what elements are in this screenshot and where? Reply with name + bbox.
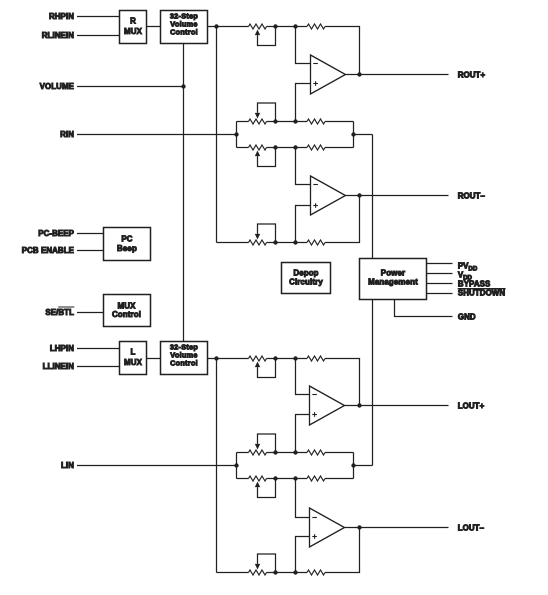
wire op-amp U1 noninverting input from RIN network xyxy=(296,84,311,122)
wire left bridge vertical (R) xyxy=(216,27,218,243)
wire op-amp U2 noninverting input to feedback row xyxy=(296,206,311,243)
block Power Management xyxy=(360,259,427,300)
resistor LIN top branch fixed xyxy=(307,450,325,455)
svg-text:L: L xyxy=(131,348,136,357)
wire power rail upper vertical xyxy=(372,135,374,259)
wire feedback row L mid xyxy=(267,572,308,574)
wire power rail lower vertical xyxy=(372,300,374,466)
wire feedback row R lead xyxy=(217,242,249,244)
wire op-amp U4 output to LOUT- xyxy=(345,527,449,529)
junction RIN top wiper tap xyxy=(273,119,277,123)
variable resistor LIN bottom branch xyxy=(249,476,267,481)
wire LIN bottom branch mid xyxy=(267,478,308,480)
wire VOLUME input xyxy=(77,86,184,88)
wire SHUTDOWN pin xyxy=(427,293,453,295)
wire LHPIN to L MUX xyxy=(77,348,120,350)
junction LIN top op-amp feed node xyxy=(293,450,297,454)
junction row1-R left node xyxy=(214,24,218,28)
wire op-amp U3 output to LOUT+ xyxy=(345,405,449,407)
svg-text:SHUTDOWN: SHUTDOWN xyxy=(458,288,505,297)
junction feedback row L wiper tap xyxy=(273,570,277,574)
junction row1-R wiper tap xyxy=(273,24,277,28)
block Depop Circuitry xyxy=(282,263,331,294)
wire PCB ENABLE input xyxy=(77,250,104,252)
wire LIN input xyxy=(77,465,237,467)
svg-text:ROUT+: ROUT+ xyxy=(458,71,486,80)
svg-text:Beep: Beep xyxy=(117,244,137,253)
block PC Beep xyxy=(104,228,151,261)
resistor RIN top branch fixed xyxy=(307,119,325,124)
wiper arrow RIN top branch xyxy=(255,113,260,119)
junction LIN node xyxy=(234,463,238,467)
wire RIN top branch lead xyxy=(237,121,249,123)
svg-text:PCB ENABLE: PCB ENABLE xyxy=(22,246,74,255)
junction LIN top wiper tap xyxy=(273,450,277,454)
wire RIN input xyxy=(77,134,237,136)
svg-text:Depop: Depop xyxy=(293,269,318,278)
junction LIN network right node xyxy=(351,463,355,467)
wire RIN top branch to right vertical xyxy=(325,121,354,123)
wire feedback row R mid xyxy=(267,242,308,244)
wiper arrow LIN top branch xyxy=(255,444,260,450)
svg-text:RIN: RIN xyxy=(60,130,74,139)
wire GND pin xyxy=(395,300,453,317)
junction row1-L left node xyxy=(214,356,218,360)
block 32-Step Volume Control (R) xyxy=(161,11,208,44)
wire PC-BEEP input xyxy=(77,233,104,235)
wire op-amp U3 noninverting input from LIN network xyxy=(296,415,310,453)
block R MUX xyxy=(120,11,147,44)
resistor LIN bottom branch fixed xyxy=(307,476,325,481)
junction RIN network right node xyxy=(351,132,355,136)
svg-text:ROUT–: ROUT– xyxy=(458,192,486,201)
svg-text:RLINEIN: RLINEIN xyxy=(42,31,74,40)
junction RIN node xyxy=(234,132,238,136)
variable resistor RIN top branch xyxy=(249,119,267,124)
junction feedback row L node xyxy=(293,570,297,574)
svg-text:Circuitry: Circuitry xyxy=(289,278,323,287)
wire RIN bottom branch lead xyxy=(237,147,249,149)
block 32-Step Volume Control (L) xyxy=(161,342,208,375)
junction op-amp U2 output node xyxy=(357,193,361,197)
wire LIN top branch mid xyxy=(267,452,308,454)
svg-text:VOLUME: VOLUME xyxy=(40,82,74,91)
junction RIN bottom wiper tap xyxy=(273,145,277,149)
wire SE/BTL input xyxy=(77,312,104,314)
wire LIN network left vertical xyxy=(236,453,238,479)
wire LIN bottom branch lead xyxy=(237,478,249,480)
junction row1-R inverting-feed node xyxy=(293,24,297,28)
wire op-amp U4 noninverting input to feedback row xyxy=(296,537,310,573)
wire row1-R node to op-amp U1 inverting input xyxy=(296,27,311,64)
wire LLINEIN to L MUX xyxy=(77,366,120,368)
variable resistor feedback row R xyxy=(249,240,267,245)
wire row1-L to op-amp U3 output xyxy=(325,359,360,406)
wire RIN right node to power rail xyxy=(354,134,373,136)
variable resistor row1-L xyxy=(249,356,267,361)
wire volume control output (R) xyxy=(208,26,249,28)
op-amp U2 (ROUT-) xyxy=(311,176,346,215)
svg-text:BYPASS: BYPASS xyxy=(458,279,490,288)
wire row1-R mid xyxy=(267,26,308,28)
wire volume control output (L) xyxy=(208,358,249,360)
op-amp U3 (LOUT+) xyxy=(310,386,345,425)
wiper arrow feedback row R xyxy=(255,234,260,240)
wire BYPASS pin xyxy=(427,283,453,285)
wire feedback row R to op-amp U2 output xyxy=(325,196,360,243)
wire LIN top branch lead xyxy=(237,452,249,454)
wire feedback row L to op-amp U4 output xyxy=(325,528,360,573)
wire left bridge vertical (L) xyxy=(216,359,218,573)
op-amp U4 (LOUT-) xyxy=(310,508,345,547)
wire RIN bottom node to op-amp U2 inverting input xyxy=(296,148,311,185)
wire L MUX to volume control xyxy=(147,358,161,360)
svg-text:PC: PC xyxy=(121,235,132,244)
junction feedback row R node xyxy=(293,240,297,244)
wire row1-R to op-amp U1 output xyxy=(325,27,360,75)
op-amp U1 (ROUT+) xyxy=(311,55,346,94)
wire RIN network right vertical xyxy=(353,122,355,148)
wire RIN bottom branch mid xyxy=(267,147,308,149)
svg-text:LOUT+: LOUT+ xyxy=(458,402,485,411)
wire PVDD pin xyxy=(427,263,453,265)
wire RHPIN to R MUX xyxy=(77,16,120,18)
wire LIN network right vertical xyxy=(353,453,355,479)
svg-text:MUX: MUX xyxy=(124,27,143,36)
junction op-amp U4 output node xyxy=(357,525,361,529)
variable resistor row1-R xyxy=(249,24,267,29)
wire RLINEIN to R MUX xyxy=(77,35,120,37)
svg-text:LHPIN: LHPIN xyxy=(50,344,74,353)
junction LIN bottom op-amp feed node xyxy=(293,476,297,480)
wire LIN bottom branch to right vertical xyxy=(325,478,354,480)
wire LIN bottom node to op-amp U4 inverting input xyxy=(296,479,310,518)
svg-text:Control: Control xyxy=(112,310,141,319)
wire row1-L mid xyxy=(267,358,308,360)
svg-text:R: R xyxy=(130,17,136,26)
wire RIN top branch mid xyxy=(267,121,308,123)
wiper arrow row1-R xyxy=(255,30,260,36)
svg-text:LLINEIN: LLINEIN xyxy=(43,362,75,371)
junction op-amp U3 output node xyxy=(357,403,361,407)
wire LIN right node to power rail xyxy=(354,465,373,467)
wire R MUX to volume control xyxy=(147,26,161,28)
svg-text:MUX: MUX xyxy=(124,358,143,367)
svg-text:RHPIN: RHPIN xyxy=(49,12,74,21)
junction row1-L inverting-feed node xyxy=(293,356,297,360)
wire VDD pin xyxy=(427,273,453,275)
svg-text:GND: GND xyxy=(458,312,476,321)
wiper arrow feedback row L xyxy=(255,564,260,570)
variable resistor feedback row L xyxy=(249,570,267,575)
resistor RIN bottom branch fixed xyxy=(307,145,325,150)
wire LIN top branch to right vertical xyxy=(325,452,354,454)
wire RIN network left vertical xyxy=(236,122,238,148)
junction row1-L wiper tap xyxy=(273,356,277,360)
wire row1-L node to op-amp U3 inverting input xyxy=(296,359,310,395)
svg-text:Control: Control xyxy=(170,359,198,368)
variable resistor RIN bottom branch xyxy=(249,145,267,150)
junction op-amp U1 output node xyxy=(357,72,361,76)
wire RIN bottom branch to right vertical xyxy=(325,147,354,149)
wiper arrow LIN bottom branch xyxy=(255,482,260,488)
block MUX Control xyxy=(104,295,151,327)
svg-text:Control: Control xyxy=(170,28,198,37)
wire feedback row L lead xyxy=(217,572,249,574)
variable resistor LIN top branch xyxy=(249,450,267,455)
resistor row1-R feedback xyxy=(307,24,325,29)
svg-text:LOUT–: LOUT– xyxy=(458,524,485,533)
svg-text:PC-BEEP: PC-BEEP xyxy=(38,229,74,238)
junction VOLUME node xyxy=(181,84,185,88)
junction LIN bottom wiper tap xyxy=(273,476,277,480)
resistor feedback row L fixed xyxy=(307,570,325,575)
wiper arrow row1-L xyxy=(255,362,260,368)
svg-text:LIN: LIN xyxy=(61,461,74,470)
svg-text:Power: Power xyxy=(381,269,405,278)
wiper arrow RIN bottom branch xyxy=(255,151,260,157)
junction RIN top op-amp feed node xyxy=(293,119,297,123)
junction feedback row R wiper tap xyxy=(273,240,277,244)
resistor feedback row R fixed xyxy=(307,240,325,245)
svg-text:SE/BTL: SE/BTL xyxy=(45,308,74,317)
junction RIN bottom op-amp feed node xyxy=(293,145,297,149)
block L MUX xyxy=(120,342,147,375)
svg-text:Management: Management xyxy=(368,278,418,287)
resistor row1-L feedback xyxy=(307,356,325,361)
wire op-amp U1 output to ROUT+ xyxy=(346,74,449,76)
wire op-amp U2 output to ROUT- xyxy=(346,195,449,197)
wire volume-control link vertical xyxy=(183,44,185,342)
